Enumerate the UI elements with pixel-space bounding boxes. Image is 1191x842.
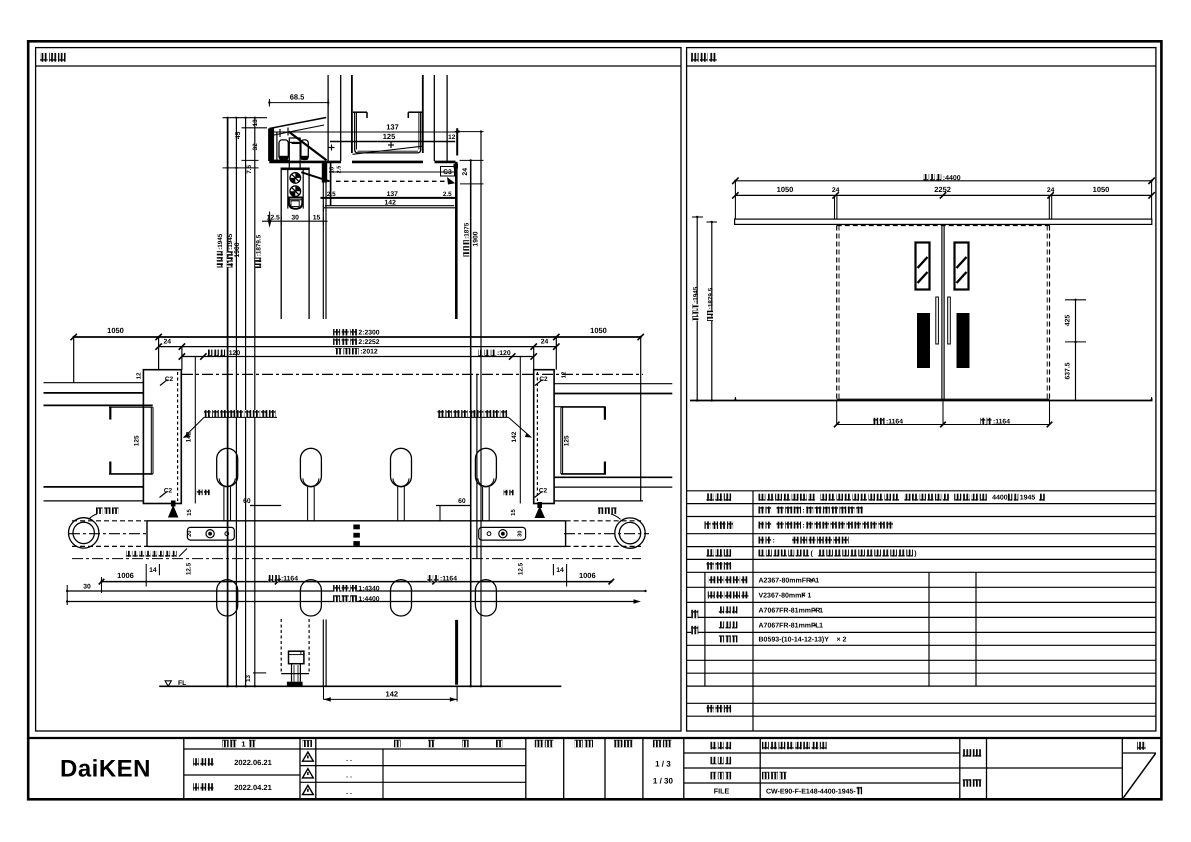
- svg-text:15: 15: [313, 215, 321, 222]
- svg-text:30: 30: [291, 215, 299, 222]
- svg-text:1006: 1006: [117, 571, 134, 580]
- svg-text:20: 20: [186, 530, 193, 536]
- svg-text:A7067FR-81mmFR: A7067FR-81mmFR: [759, 607, 821, 614]
- svg-text:12: 12: [560, 371, 567, 378]
- svg-text:13: 13: [245, 675, 252, 683]
- svg-text:× 1: × 1: [801, 592, 811, 599]
- svg-text:1:4400: 1:4400: [358, 596, 379, 603]
- svg-text:12: 12: [135, 372, 142, 379]
- svg-text:12.5: 12.5: [517, 562, 524, 575]
- svg-text::1164: :1164: [993, 418, 1010, 425]
- svg-text::2012: :2012: [360, 349, 378, 356]
- svg-text:C2: C2: [165, 376, 174, 383]
- svg-text:10: 10: [328, 166, 335, 173]
- svg-text:1945: 1945: [1020, 495, 1036, 502]
- svg-text:14: 14: [149, 567, 157, 574]
- svg-text:12: 12: [448, 134, 456, 141]
- svg-text:1050: 1050: [1093, 185, 1110, 194]
- svg-text:FL: FL: [178, 680, 186, 687]
- svg-text:68.5: 68.5: [290, 92, 305, 101]
- svg-text:7.5: 7.5: [246, 164, 253, 173]
- svg-text:1: 1: [241, 739, 245, 748]
- svg-text:2252: 2252: [934, 185, 951, 194]
- svg-text::: :: [802, 523, 804, 530]
- svg-text:30: 30: [517, 530, 524, 536]
- svg-text:425: 425: [1065, 315, 1072, 327]
- svg-text:2.5: 2.5: [327, 191, 336, 198]
- svg-text:B0593-(10-14-12-13)Y: B0593-(10-14-12-13)Y: [759, 635, 830, 643]
- svg-text:15: 15: [510, 509, 517, 516]
- svg-text:2.5: 2.5: [337, 166, 343, 174]
- svg-text::: :: [802, 508, 804, 515]
- svg-text:24: 24: [164, 339, 172, 346]
- svg-text:C3: C3: [443, 169, 452, 176]
- svg-text:60: 60: [458, 498, 466, 505]
- svg-text:142: 142: [385, 200, 397, 207]
- svg-text::4400: :4400: [943, 175, 961, 182]
- svg-text:× 1: × 1: [813, 622, 823, 629]
- svg-text:637.5: 637.5: [1065, 362, 1072, 379]
- svg-text:60: 60: [243, 498, 251, 505]
- svg-text:1:4340: 1:4340: [358, 586, 379, 593]
- svg-text:142: 142: [511, 431, 518, 442]
- svg-text:A7067FR-81mmFL: A7067FR-81mmFL: [759, 622, 821, 629]
- svg-text::: :: [773, 538, 775, 545]
- svg-text:2:2252: 2:2252: [358, 339, 379, 346]
- svg-text:1900: 1900: [472, 231, 479, 246]
- svg-text:× 1: × 1: [809, 577, 819, 584]
- svg-text:24: 24: [1047, 187, 1055, 194]
- svg-text::1879.5: :1879.5: [707, 287, 714, 309]
- svg-text:12.5: 12.5: [186, 562, 193, 575]
- svg-text:1900: 1900: [234, 242, 241, 257]
- svg-text:137: 137: [386, 123, 399, 132]
- svg-text::1875: :1875: [463, 222, 470, 239]
- svg-text:V2367-80mmF: V2367-80mmF: [759, 592, 807, 599]
- svg-text:C2: C2: [539, 376, 548, 383]
- svg-text:A2367-80mmFRA: A2367-80mmFRA: [759, 577, 817, 584]
- svg-text::1164: :1164: [281, 576, 298, 583]
- svg-text:× 1: × 1: [813, 607, 823, 614]
- svg-text:. .: . .: [346, 772, 352, 779]
- svg-text:): ): [914, 550, 916, 558]
- svg-text:DaiKEN: DaiKEN: [60, 756, 151, 783]
- svg-text:15: 15: [186, 509, 193, 516]
- svg-text:125: 125: [383, 132, 396, 141]
- svg-text:24: 24: [462, 168, 469, 176]
- svg-text:24: 24: [541, 339, 549, 346]
- svg-text:. .: . .: [346, 789, 352, 796]
- svg-text:125: 125: [563, 435, 570, 446]
- svg-text:. .: . .: [346, 756, 352, 763]
- svg-text:1006: 1006: [579, 571, 596, 580]
- svg-text:24: 24: [832, 187, 840, 194]
- svg-text:2022.06.21: 2022.06.21: [234, 758, 272, 767]
- svg-text:FILE: FILE: [714, 786, 730, 795]
- svg-text:1050: 1050: [107, 326, 124, 335]
- svg-text::1164: :1164: [886, 418, 903, 425]
- svg-text:× 2: × 2: [837, 636, 847, 643]
- svg-text::120: :120: [227, 350, 241, 357]
- svg-text::1879.5: :1879.5: [255, 234, 262, 256]
- svg-text::1945: :1945: [693, 286, 700, 303]
- svg-text:142: 142: [185, 431, 192, 442]
- svg-text:32: 32: [252, 143, 259, 151]
- svg-text:30: 30: [83, 583, 91, 590]
- svg-text:13: 13: [252, 119, 259, 127]
- svg-text:CW-E90-F-E148-4400-1945-: CW-E90-F-E148-4400-1945-: [766, 788, 856, 795]
- svg-text:2:2300: 2:2300: [358, 330, 379, 337]
- svg-text::1164: :1164: [440, 576, 457, 583]
- svg-text:2022.04.21: 2022.04.21: [234, 783, 272, 792]
- svg-text:137: 137: [387, 191, 399, 198]
- svg-text:14: 14: [556, 567, 564, 574]
- svg-text:1050: 1050: [777, 185, 794, 194]
- svg-text:125: 125: [134, 435, 141, 446]
- svg-text:1 / 30: 1 / 30: [653, 777, 674, 786]
- svg-text::120: :120: [497, 350, 511, 357]
- svg-text::1945: :1945: [217, 233, 224, 250]
- svg-text:142: 142: [386, 690, 399, 699]
- svg-text:1 / 3: 1 / 3: [655, 760, 671, 769]
- svg-text:2.5: 2.5: [443, 191, 452, 198]
- svg-text:4400: 4400: [992, 495, 1008, 502]
- svg-text:1050: 1050: [590, 326, 607, 335]
